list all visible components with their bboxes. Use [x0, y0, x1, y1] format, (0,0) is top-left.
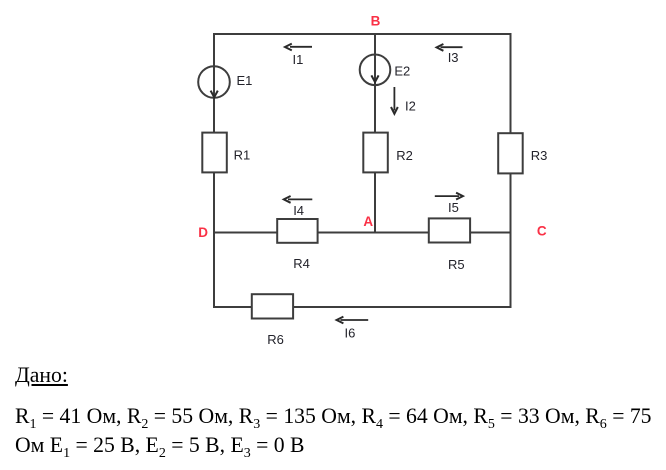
svg-text:R4: R4	[293, 256, 310, 271]
svg-text:A: A	[363, 214, 373, 229]
svg-text:R5: R5	[448, 257, 465, 272]
svg-text:R3: R3	[531, 148, 548, 163]
svg-text:B: B	[371, 14, 381, 29]
svg-text:E1: E1	[237, 73, 253, 88]
svg-text:I6: I6	[345, 326, 356, 341]
svg-text:I3: I3	[448, 50, 459, 65]
svg-text:I2: I2	[405, 99, 416, 114]
svg-text:E2: E2	[394, 63, 410, 78]
svg-text:I4: I4	[293, 203, 304, 218]
svg-text:R2: R2	[396, 148, 413, 163]
svg-text:R1: R1	[234, 148, 251, 163]
svg-text:D: D	[198, 225, 208, 240]
svg-text:I1: I1	[293, 52, 304, 67]
svg-text:C: C	[537, 224, 547, 239]
svg-text:I5: I5	[448, 200, 459, 215]
svg-text:R6: R6	[267, 332, 284, 347]
